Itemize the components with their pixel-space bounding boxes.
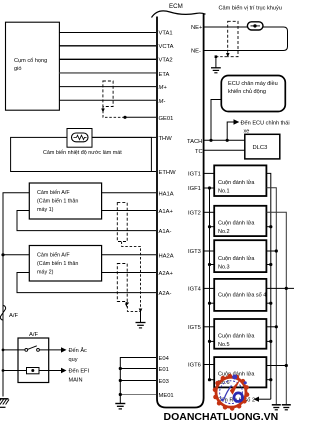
wire M- [59,99,156,101]
svg-text:ETHW: ETHW [159,170,177,176]
junction IGF5 [208,340,211,343]
junction tap TACH [209,139,212,142]
svg-text:HA2A: HA2A [159,253,174,259]
svg-text:DLC3: DLC3 [253,145,268,151]
ignition coil No.5 [214,319,266,349]
svg-text:GE01: GE01 [159,116,174,122]
svg-text:Đến Ắc: Đến Ắc [69,346,88,354]
junction IGF6 [208,378,211,381]
junction E01 [119,367,122,370]
arrow Den EFI MAIN [61,368,89,384]
wire coil1 gnd [266,188,276,404]
svg-text:E01: E01 [159,367,169,373]
svg-text:ECU chân máy điều: ECU chân máy điều [228,81,278,87]
junction IGF4 [208,302,211,305]
svg-text:HA1A: HA1A [159,191,174,197]
wire coil5 +B [266,326,276,328]
junction arrow TACH [226,139,229,142]
svg-text:Đến EFI: Đến EFI [69,369,90,375]
wire IGT1 [204,172,214,174]
wire coil2 gnd [266,226,270,228]
svg-text:MAIN: MAIN [69,378,83,384]
wire ME01 [120,394,156,396]
svg-text:IGT5: IGT5 [188,325,201,331]
ignition coil No.6 [214,357,266,387]
junction IGF3 [208,263,211,266]
svg-text:VTA1: VTA1 [159,31,173,37]
svg-text:A/F: A/F [29,332,38,338]
svg-text:Đến ECU chỉnh thái: Đến ECU chỉnh thái [241,119,290,126]
shield ground for A/F sensors [136,311,146,328]
ECU active engine mount box [221,76,285,112]
junction coil6 bus1 [269,378,272,381]
svg-text:No.1: No.1 [218,189,230,195]
svg-text:Cảm biến vị trí trục khuỷu: Cảm biến vị trí trục khuỷu [219,5,282,12]
wire IGT5 [204,326,214,328]
throttle body box: Cum co hong gio [6,22,60,110]
wire ETHW [151,171,156,173]
svg-text:khiển chủ động: khiển chủ động [228,88,266,95]
wire IGT4 [204,287,214,289]
wire A1A- wrap [17,211,156,231]
wire NE+/NE- loop [204,27,287,51]
shield ground NE [211,57,221,73]
wire IGF5 stub [210,340,215,342]
svg-text:gió: gió [14,66,21,72]
wire IGF4 stub [210,302,215,304]
wire VCTA [59,45,156,47]
svg-text:(Cảm biến 1 thân: (Cảm biến 1 thân [37,199,78,205]
wire coil4 +B to edge [266,287,294,289]
svg-text:(Cảm biến 1 thân: (Cảm biến 1 thân [37,261,78,267]
svg-text:VCTA: VCTA [159,44,174,50]
svg-text:IGT3: IGT3 [188,249,201,255]
svg-text:ETA: ETA [159,72,170,78]
wire VTA2 [59,58,156,60]
junction IGF1 bus [208,186,211,189]
svg-text:IGT6: IGT6 [188,363,201,369]
A/F sensor 2 box [29,246,101,282]
wire IGF1 [204,187,214,189]
wire E04 [120,358,156,404]
ignition coil No.3 [214,240,266,272]
wire TACH [204,139,244,141]
fuse A/F [0,306,18,321]
A/F sensor 1 box [29,183,101,219]
svg-text:IGT1: IGT1 [188,172,201,178]
svg-text:NE-: NE- [191,49,201,55]
svg-text:TACH: TACH [187,139,202,145]
coolant temp sensor box [11,137,152,171]
wire coil6 +B [266,365,286,367]
wire GE01 [125,116,156,118]
wire coil4 gnd [266,302,270,304]
wire IGF3 stub [210,264,215,266]
svg-text:Cụm cổ họng: Cụm cổ họng [14,57,47,64]
wire coil3 +B [266,250,276,252]
IGF bus [209,188,211,380]
junction relay feeds [2,349,5,352]
svg-text:TC: TC [195,149,203,155]
wire left feed to ground [2,350,4,397]
wire HA1A [102,192,156,194]
svg-text:M-: M- [159,99,166,105]
svg-text:No.2: No.2 [218,229,230,235]
thermistor symbol [67,129,92,148]
svg-text:Cảm biến nhiệt độ nước làm mát: Cảm biến nhiệt độ nước làm mát [43,150,122,156]
junction coil3 bus1 [269,263,272,266]
svg-text:E04: E04 [159,356,170,362]
connector DLC3 [245,134,280,159]
relay coil [3,368,61,374]
ground coil bus B [282,405,291,410]
svg-text:Cuộn đánh lửa: Cuộn đánh lửa [218,179,255,186]
svg-text:xe: xe [244,128,250,134]
shield around M+/M- wires [101,81,125,117]
wire IGF6 stub [210,379,215,381]
svg-text:IGF1: IGF1 [188,186,201,192]
junction coil2 bus1 [269,225,272,228]
crank sensor pickup symbol [247,22,263,30]
svg-text:máy 2): máy 2) [37,270,54,276]
svg-text:A1A-: A1A- [159,229,172,235]
ignition coil No.4 [214,279,266,311]
wire ETA [59,72,156,74]
wire IGF2 stub [210,226,215,228]
svg-text:Cảm biến A/F: Cảm biến A/F [37,253,70,259]
svg-text:ECM: ECM [169,3,183,10]
svg-text:Cuộn đánh lửa: Cuộn đánh lửa [218,255,255,262]
wire IGT6 [204,364,214,366]
wire coil5 gnd [266,340,270,342]
wire E03 [120,380,156,382]
wire TC [204,149,244,151]
watermark stamp [213,374,250,411]
junction coil3 bus2 [275,249,278,252]
svg-text:Cuộn đánh lửa số 4: Cuộn đánh lửa số 4 [218,292,266,299]
relay switch [3,346,61,352]
svg-text:IGT4: IGT4 [188,287,202,293]
wire A1A+ [102,210,156,212]
wire coil2 +B [266,212,286,404]
svg-text:A1A+: A1A+ [159,209,174,215]
relay A/F box [18,332,49,383]
ECM U1 [152,3,206,408]
wire coil6 gnd [266,379,270,381]
wire HA2A [102,254,156,256]
junction coil6 bus3 [285,364,288,367]
svg-text:quy: quy [69,357,78,363]
wire M+ [59,86,156,88]
junction left feed HA2A [1,253,4,256]
shield around A2A wires [117,264,142,313]
svg-text:Cảm biến A/F: Cảm biến A/F [37,190,70,196]
wire VTA1 [59,32,156,34]
junction IGF2 [208,225,211,228]
ignition coil No.1 [214,165,266,196]
svg-text:NE+: NE+ [191,25,203,31]
wire HA1A left feed [3,193,29,350]
svg-text:Cuộn đánh lửa: Cuộn đánh lửa [218,220,255,227]
arrow Den Ac quy [61,346,87,363]
shield around NE wires [215,21,238,58]
wire IGT3 [204,250,214,252]
junction E03 [119,379,122,382]
svg-text:THW: THW [159,136,173,142]
svg-text:VTA2: VTA2 [159,57,173,63]
svg-text:ME01: ME01 [159,393,174,399]
junction GE01 drain [123,116,126,119]
ignition coil No.2 [214,206,266,236]
junction ME01 [119,393,122,396]
ground ECM E-lines [115,404,125,409]
wire A2A- wrap [17,273,156,293]
wire coil3 gnd [266,264,270,266]
junction coil5 bus1 [269,340,272,343]
wire E01 [120,368,156,370]
svg-text:A2A+: A2A+ [159,271,174,277]
junction coil5 bus2 [275,325,278,328]
wire coil1 +B [266,173,270,399]
svg-text:M+: M+ [159,85,168,91]
wire IGT2 [204,211,214,213]
svg-text:A/F: A/F [9,313,18,319]
svg-text:DOANCHATLUONG.VN: DOANCHATLUONG.VN [164,411,279,422]
shield around A1A wires [117,203,140,312]
svg-text:E03: E03 [159,379,169,385]
arrow Den Ro le so 2 [218,397,271,404]
ground left bottom [0,399,9,408]
wire ECU mount tap to TACH [211,100,221,141]
ground coil bus A [272,405,281,410]
svg-text:A2A-: A2A- [159,291,172,297]
junction coil4 bus3 [285,287,288,290]
svg-text:IGT2: IGT2 [188,211,201,217]
svg-text:máy 1): máy 1) [37,207,54,213]
svg-text:No.5: No.5 [218,342,230,348]
wire THW [92,136,156,138]
junction coil4 bus1 [269,302,272,305]
svg-text:Cuộn đánh lửa: Cuộn đánh lửa [218,333,255,340]
svg-text:No.3: No.3 [218,265,230,271]
arrow Den ECU chinh thai xe [227,119,289,140]
wire A2A+ [102,272,156,274]
wire HA2A left feed [3,254,29,256]
